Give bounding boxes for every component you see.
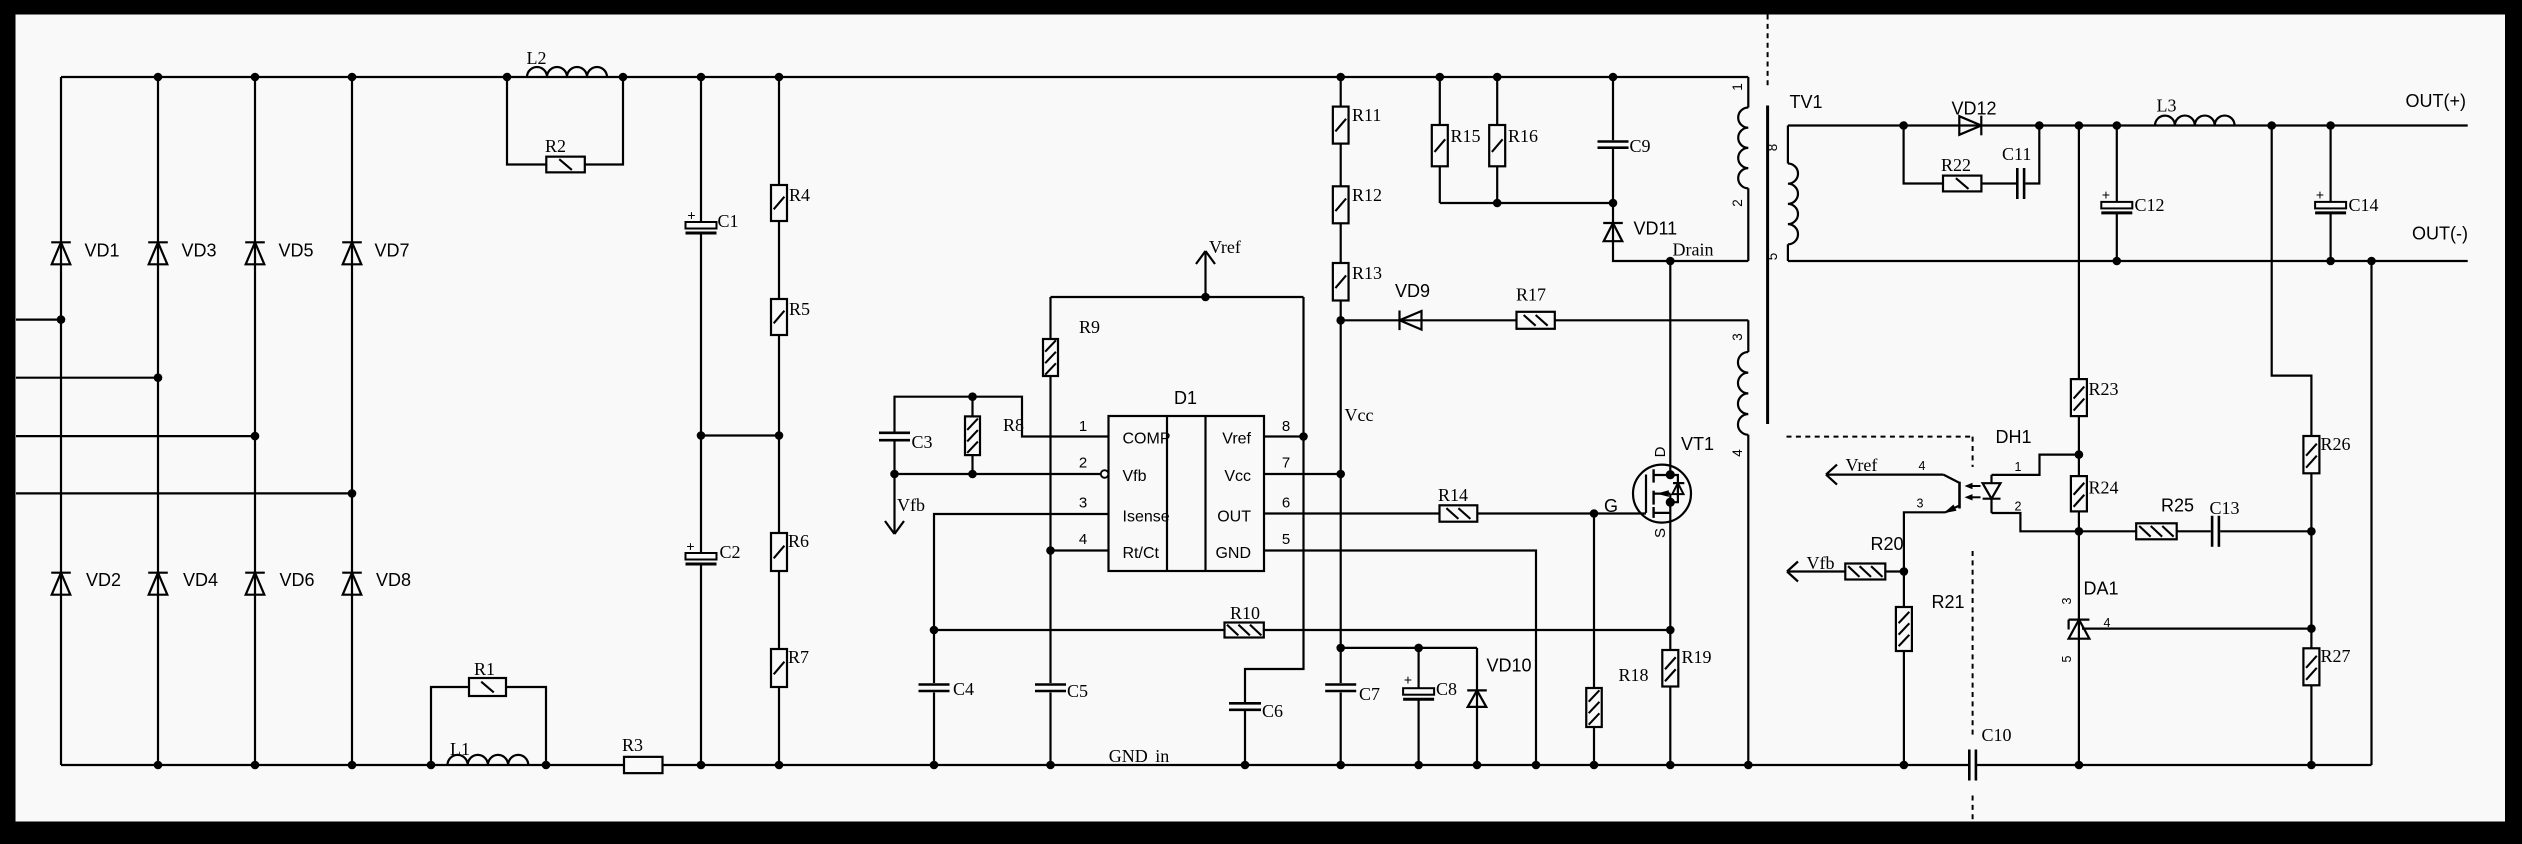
DA1 pin4 label (2104, 616, 2111, 630)
capacitor C10 (1969, 725, 2011, 781)
svg-text:C9: C9 (1630, 136, 1651, 156)
node R1 right (542, 761, 551, 770)
wire bottom bus left (61, 764, 624, 766)
svg-text:3: 3 (1079, 495, 1087, 512)
wire R23 column top (2078, 126, 2080, 380)
wire pin7 stub (1264, 473, 1341, 475)
node R18 bottom (1590, 761, 1599, 770)
svg-text:VD8: VD8 (376, 570, 411, 590)
pin 2 open circle (1101, 470, 1109, 478)
node VT1 body-source (1666, 498, 1675, 507)
VT1 body stub with arrow (1654, 490, 1671, 497)
svg-text:2: 2 (1079, 455, 1087, 472)
node C12 bottom (2113, 257, 2122, 266)
DH1 phototransistor bar (1958, 482, 1961, 509)
DH1 pin3 label (1917, 497, 1924, 511)
capacitor C11 (2002, 144, 2031, 199)
svg-text:R16: R16 (1508, 126, 1538, 146)
inductor L3 (2155, 96, 2235, 126)
isolation dashed vertical mid (1972, 551, 1974, 735)
wire R15 top (1439, 77, 1441, 125)
wire R23-R24 (2078, 416, 2080, 476)
wire AC input 4 (16, 492, 352, 494)
resistor R22 (1941, 155, 1981, 191)
svg-text:+: + (687, 207, 695, 223)
node bottom bus VD6 (251, 761, 260, 770)
DA1 pin5 label (2060, 655, 2074, 662)
resistor R16 (1489, 125, 1538, 166)
wire left vertical (VD1 column) (60, 77, 62, 765)
wire R19 top lead (1669, 630, 1671, 650)
resistor R14 (1438, 485, 1477, 522)
node R8 top (968, 392, 977, 401)
node L2 left (503, 73, 512, 82)
svg-text:R27: R27 (2321, 646, 2351, 666)
net Drain label (1673, 240, 1714, 260)
wire VD3 column (157, 77, 159, 765)
capacitor C2 (686, 538, 741, 564)
node Drain (1666, 257, 1675, 266)
svg-text:in: in (1155, 746, 1169, 766)
wire R11-R12 (1340, 144, 1342, 187)
svg-text:C7: C7 (1359, 684, 1380, 704)
wire VD9 line (1341, 319, 1517, 321)
svg-text:R7: R7 (788, 647, 809, 667)
TV1 aux pin3 lead (1747, 320, 1749, 352)
wire R9 bottom lead (1049, 376, 1051, 551)
pin 8 Vref (1222, 418, 1290, 448)
resistor R5 (771, 299, 810, 335)
TV1 pin3 label (1730, 333, 1745, 341)
wire R25-C13 (2177, 530, 2211, 532)
wire C12 top lead (2116, 126, 2118, 202)
svg-text:+: + (2316, 187, 2324, 203)
wire C3 bottom lead (893, 441, 895, 474)
node R26-DA1 line (2307, 624, 2316, 633)
svg-text:D: D (1652, 446, 1669, 457)
resistor R19 (1662, 647, 1711, 687)
node C14 bottom (2326, 257, 2335, 266)
node pin3-R10 line (930, 626, 939, 635)
DH1 emitter (1904, 505, 1960, 572)
svg-text:C8: C8 (1436, 679, 1457, 699)
net GND in label (1109, 746, 1170, 766)
TV1 dashed top (1767, 15, 1769, 88)
VT1 gate electrode (1645, 475, 1647, 513)
pin 4 Rt/Ct (1079, 531, 1160, 562)
resistor R3 (622, 735, 663, 773)
net Vfb down arrow (885, 474, 925, 534)
svg-text:5: 5 (2060, 655, 2074, 662)
capacitor C13 (2210, 498, 2240, 547)
node top bus C9 (1609, 73, 1618, 82)
svg-text:R15: R15 (1451, 126, 1481, 146)
wire R4 top (778, 77, 780, 185)
svg-text:C5: C5 (1067, 681, 1088, 701)
svg-text:C11: C11 (2002, 144, 2031, 164)
svg-text:VD11: VD11 (1634, 219, 1678, 239)
svg-text:1: 1 (1730, 83, 1745, 91)
node L2 right (619, 73, 628, 82)
svg-text:Vcc: Vcc (1345, 405, 1374, 425)
capacitor C3 (879, 432, 933, 452)
svg-text:VD3: VD3 (182, 241, 217, 261)
wire Vcc col top (1340, 77, 1342, 107)
diode VD8 (342, 570, 411, 595)
wire R15 bottom (1439, 166, 1441, 203)
resistor R1 (469, 659, 506, 696)
svg-text:G: G (1604, 496, 1618, 516)
svg-text:Drain: Drain (1673, 240, 1714, 260)
svg-text:R8: R8 (1003, 415, 1024, 435)
pin D label (1652, 446, 1669, 457)
node R20-R21-DH1 (1900, 567, 1909, 576)
node C9 col-line (1609, 199, 1618, 208)
svg-text:R23: R23 (2089, 379, 2119, 399)
svg-text:+: + (686, 538, 694, 554)
resistor R26 (2303, 434, 2350, 473)
diode VD1 (51, 241, 119, 265)
wire VD10 column (1476, 648, 1478, 765)
svg-text:VD2: VD2 (86, 570, 121, 590)
node Vcc-VD9 line (1336, 316, 1345, 325)
node top bus VD5 (251, 73, 260, 82)
wire gate line (1477, 512, 1646, 514)
svg-text:2: 2 (1730, 199, 1745, 207)
svg-text:R2: R2 (545, 136, 566, 156)
wire R16 bottom (1496, 166, 1498, 203)
node C4 bottom (930, 761, 939, 770)
pin 5 GND (1215, 531, 1290, 562)
svg-text:DH1: DH1 (1996, 427, 2032, 447)
svg-text:Vref: Vref (1846, 455, 1878, 475)
node C6 bottom (1241, 761, 1250, 770)
wire DA1 ref line (2082, 627, 2311, 629)
node Vcc-C8 line (1336, 644, 1345, 653)
wire R21 top lead (1903, 572, 1905, 608)
svg-text:Rt/Ct: Rt/Ct (1123, 545, 1160, 562)
svg-text:3: 3 (1917, 497, 1924, 511)
TV1 aux pin4 lead (1747, 435, 1749, 765)
svg-text:D1: D1 (1174, 388, 1197, 408)
node R21 bottom (1900, 761, 1909, 770)
capacitor C4 (919, 679, 975, 699)
TV1 primary pin1 lead (1747, 77, 1749, 108)
svg-text:1: 1 (1079, 418, 1087, 435)
optocoupler DH1 label (1996, 427, 2032, 447)
DH1 pin1 label (2015, 460, 2022, 474)
resistor R2 (545, 136, 585, 172)
wire C1-C2 (700, 233, 702, 553)
wire R22-C11 loop left (1904, 126, 1943, 184)
node R26 feed (2267, 121, 2276, 130)
transistor VT1 circle (1633, 434, 1714, 523)
svg-text:VD5: VD5 (279, 241, 314, 261)
DH1 pin1 route (1992, 455, 2079, 475)
wire R10 line left (934, 629, 1225, 631)
wire C14 top lead (2330, 126, 2332, 202)
wire C8 bottom lead (1417, 699, 1419, 765)
svg-text:R4: R4 (789, 185, 810, 205)
diode VD9 (1395, 281, 1430, 330)
TV1 primary pin2 lead (1747, 188, 1749, 261)
svg-text:VD12: VD12 (1952, 99, 1997, 119)
node gate-R18 (1590, 509, 1599, 518)
svg-text:Vfb: Vfb (897, 495, 925, 515)
node R24-pin2 (2075, 527, 2084, 536)
svg-text:4: 4 (1079, 531, 1087, 548)
wire C3-R8 top line (895, 397, 1109, 437)
svg-text:C12: C12 (2135, 195, 2165, 215)
svg-text:1: 1 (2015, 460, 2022, 474)
wire VD7 column (351, 77, 353, 765)
node mid junction R5 (775, 431, 784, 440)
svg-text:R24: R24 (2089, 478, 2119, 498)
wire R24-DA1 (2078, 511, 2080, 765)
wire R13-pin7 (1340, 301, 1342, 684)
svg-text:GND: GND (1109, 746, 1148, 766)
wire C14 bottom lead (2330, 213, 2332, 261)
svg-text:OUT(+): OUT(+) (2406, 91, 2467, 111)
resistor R9 (1043, 317, 1100, 376)
wire C13-R26col (2220, 530, 2311, 532)
resistor R18 (1586, 665, 1648, 727)
svg-text:C10: C10 (1982, 725, 2012, 745)
node TV1 pin4 bottom (1744, 761, 1753, 770)
svg-text:R6: R6 (788, 531, 809, 551)
svg-text:R3: R3 (622, 735, 643, 755)
svg-text:L3: L3 (2157, 96, 2177, 116)
svg-text:R26: R26 (2321, 434, 2351, 454)
svg-text:R19: R19 (1682, 647, 1712, 667)
node top bus VD7 (348, 73, 357, 82)
node VD10 bottom (1473, 761, 1482, 770)
svg-text:4: 4 (1919, 459, 1926, 473)
svg-text:5: 5 (1765, 253, 1780, 261)
wire C9 top lead (1612, 77, 1614, 140)
wire C8 top lead (1417, 648, 1419, 688)
svg-text:C4: C4 (953, 679, 974, 699)
svg-text:Isense: Isense (1123, 509, 1170, 526)
wire pin6 OUT stub (1264, 512, 1440, 514)
svg-text:R22: R22 (1941, 155, 1971, 175)
net G label (1604, 496, 1618, 516)
node bottom bus VD4 (154, 761, 163, 770)
wire R22-C11 (1981, 182, 2016, 184)
svg-text:C2: C2 (720, 542, 741, 562)
node bottom C2 (697, 761, 706, 770)
VT1 drain stub (1654, 474, 1671, 476)
resistor R13 (1333, 263, 1382, 301)
capacitor C12 (2101, 187, 2164, 216)
node pin4-R9 (1046, 546, 1055, 555)
svg-text:Vfb: Vfb (1123, 468, 1147, 485)
TV1 core (1766, 106, 1769, 425)
svg-text:S: S (1652, 528, 1669, 538)
wire pin2-R25 (2079, 530, 2136, 532)
diode VD5 (245, 241, 313, 265)
resistor R6 (771, 531, 809, 571)
net Vfb arrow (1787, 553, 1845, 582)
wire R17-TV1 pin3 (1555, 319, 1749, 321)
svg-text:R1: R1 (474, 659, 495, 679)
TV1 pin8 label (1765, 144, 1780, 152)
pin 3 Isense (1079, 495, 1170, 526)
svg-text:R5: R5 (789, 299, 810, 319)
resistor R21 (1896, 592, 1965, 651)
node mid junction C1 (697, 431, 706, 440)
svg-text:8: 8 (1765, 144, 1780, 152)
wire right riser to OUT(-) (2370, 261, 2372, 765)
VT1 source wire (1669, 494, 1671, 630)
node bottom R7 (775, 761, 784, 770)
svg-text:5: 5 (1282, 531, 1290, 548)
node C5 bottom (1046, 761, 1055, 770)
node R23 top (2075, 121, 2084, 130)
capacitor C8 (1403, 672, 1457, 700)
TV1 label (1790, 92, 1823, 112)
wire R20-R21 (1885, 570, 1904, 572)
wire AC input 3 (16, 435, 255, 437)
node bottom bus VD8 (348, 761, 357, 770)
svg-text:R12: R12 (1352, 185, 1382, 205)
svg-text:OUT(-): OUT(-) (2412, 224, 2468, 244)
TV1 pin1 label (1730, 83, 1745, 91)
node C8 bottom (1414, 761, 1423, 770)
node R16 bottom (1493, 199, 1502, 208)
diode VD3 (148, 241, 216, 265)
resistor R4 (771, 185, 810, 221)
wire AC input 1 (16, 319, 61, 321)
wire R26-R27 (2310, 473, 2312, 648)
svg-text:C14: C14 (2349, 195, 2379, 215)
node VT1 drain (1666, 470, 1675, 479)
svg-text:L2: L2 (527, 48, 547, 68)
svg-text:VD9: VD9 (1395, 281, 1430, 301)
node OUT(-) riser (2367, 257, 2376, 266)
svg-text:VT1: VT1 (1681, 434, 1714, 454)
svg-text:R11: R11 (1352, 105, 1381, 125)
svg-text:8: 8 (1282, 418, 1290, 435)
net OUT(+) label (2406, 91, 2467, 111)
svg-text:+: + (1404, 672, 1412, 688)
capacitor C7 (1325, 684, 1380, 704)
svg-text:R9: R9 (1079, 317, 1100, 337)
wire R18 top lead (1593, 514, 1595, 689)
wire pin4 stub (1051, 549, 1109, 551)
wire OUT(+) rail (1788, 124, 2468, 126)
node input1 (57, 315, 66, 324)
diode VD6 (245, 570, 314, 595)
resistor R25 (2136, 496, 2194, 540)
wire Vref rail (1051, 296, 1304, 298)
node C3-pin2 (890, 470, 899, 479)
resistor R15 (1432, 125, 1481, 166)
TV1 pin4 label (1730, 449, 1745, 457)
wire C7 bottom (1340, 693, 1342, 766)
node top bus Vcc col (1336, 73, 1345, 82)
svg-text:VD6: VD6 (280, 570, 315, 590)
node R1 left (427, 761, 436, 770)
wire C1 column upper (700, 77, 702, 222)
wire VD5 column (254, 77, 256, 765)
wire Vref rail drop (1245, 297, 1304, 702)
VT1 body diode (1670, 475, 1684, 502)
pin 7 Vcc (1224, 455, 1290, 486)
inductor L2 (527, 48, 608, 77)
svg-text:Vfb: Vfb (1807, 553, 1835, 573)
DH1 collector (1826, 465, 1960, 485)
svg-text:Vcc: Vcc (1224, 468, 1251, 485)
svg-text:R14: R14 (1438, 485, 1468, 505)
TV1 sec pin5 lead (1787, 244, 1789, 261)
wire R7 bottom (778, 687, 780, 765)
wire C11 loop right (2025, 126, 2039, 184)
svg-text:OUT: OUT (1217, 509, 1251, 526)
wire R1 loop (431, 687, 546, 765)
wire R27 bottom (2310, 685, 2312, 765)
svg-text:COMP: COMP (1123, 431, 1171, 448)
node R27 bottom (2307, 761, 2316, 770)
wire R15-C9 line (1440, 202, 1613, 204)
isolation dashed horizontal (1787, 436, 1973, 438)
DH1 pin4 label (1919, 459, 1926, 473)
svg-text:C3: C3 (912, 432, 933, 452)
node top bus R16 (1493, 73, 1502, 82)
capacitor C6 (1229, 701, 1283, 721)
pin 2 Vfb (1079, 455, 1147, 486)
wire pin3 Isense route (934, 514, 1109, 683)
net Vcc label (1345, 405, 1374, 425)
VT1 drain wire (1669, 261, 1671, 475)
diode VD11 (1603, 219, 1677, 242)
DH1 coupling arrows (1965, 483, 1981, 501)
node input2 (154, 373, 163, 382)
svg-text:Vref: Vref (1209, 237, 1241, 257)
node R19 bottom (1666, 761, 1675, 770)
svg-text:R17: R17 (1516, 285, 1546, 305)
svg-text:3: 3 (1730, 333, 1745, 341)
wire R26 feed (2272, 126, 2312, 437)
zener DA1 (2069, 579, 2119, 639)
resistor R7 (771, 647, 809, 687)
pin S label (1652, 528, 1669, 538)
diode VD4 (148, 570, 218, 595)
capacitor C1 (686, 207, 739, 233)
wire C8 line (1341, 647, 1477, 649)
wire R8 bottom lead (971, 455, 973, 474)
resistor R10 (1225, 603, 1264, 638)
svg-text:R25: R25 (2161, 496, 2194, 516)
wire C2 lower (700, 564, 702, 765)
wire C5 bottom (1049, 693, 1051, 766)
pin 6 OUT (1217, 495, 1290, 526)
VT1 channel segments (1652, 469, 1654, 518)
inductor L1 (448, 739, 529, 765)
svg-text:4: 4 (1730, 449, 1745, 457)
node Vref arrow (1201, 293, 1210, 302)
svg-text:3: 3 (2060, 597, 2074, 604)
wire OUT(-) rail (1788, 260, 2468, 262)
svg-text:R21: R21 (1932, 592, 1965, 612)
resistor R24 (2071, 476, 2119, 511)
DH1 pin2 route (1992, 513, 2079, 531)
node pin5 bottom (1532, 761, 1541, 770)
net OUT(-) label (2412, 224, 2468, 244)
diode VD2 (51, 570, 121, 595)
TV1 aux winding 3-4 (1738, 352, 1748, 435)
wire C4 bottom (933, 693, 935, 766)
